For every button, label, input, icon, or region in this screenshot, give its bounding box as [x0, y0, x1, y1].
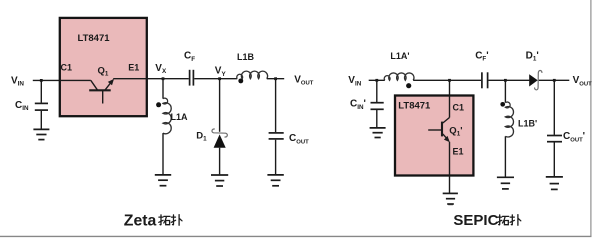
svg-text:VX: VX [155, 63, 167, 75]
wire COUT' to ground [553, 143, 555, 177]
svg-text:VIN: VIN [11, 75, 24, 87]
wire junction down to COUT' [553, 80, 555, 135]
wire VIN to L1A' [369, 79, 385, 81]
polarity dot L1A [156, 102, 161, 107]
node VY [218, 77, 221, 80]
svg-text:E1: E1 [453, 146, 464, 156]
svg-text:D1': D1' [526, 50, 539, 62]
capacitor COUT' [547, 136, 562, 142]
diode D1' Schottky [529, 71, 542, 90]
svg-text:COUT: COUT [289, 133, 309, 145]
svg-text:CF: CF [184, 51, 195, 63]
IC U2 LT8471 box right [395, 96, 473, 176]
wire D1 to ground [219, 148, 221, 175]
ground E1 [443, 193, 458, 204]
svg-text:CF': CF' [475, 50, 488, 62]
wire COUT to ground [275, 140, 277, 175]
wire E1 to VX to CF [113, 78, 189, 80]
wire CIN to ground [40, 111, 42, 130]
title SEPIC topology [453, 212, 520, 229]
transistor Q1' [428, 96, 450, 143]
polarity dot L1A' [406, 83, 411, 88]
svg-text:SEPIC: SEPIC [453, 212, 498, 229]
capacitor CF [190, 70, 194, 86]
node C1 junction [448, 79, 451, 82]
svg-text:Q1': Q1' [449, 125, 462, 137]
svg-text:VOUT: VOUT [573, 75, 593, 87]
wire L1B to VOUT [267, 78, 284, 80]
node VIN/CIN' junction [375, 79, 378, 82]
inductor L1B [237, 71, 268, 79]
ground L1A [155, 175, 171, 186]
wire D1' to VOUT [539, 79, 570, 81]
svg-text:LT8471: LT8471 [398, 100, 431, 111]
ground COUT [267, 175, 283, 186]
inductor L1B' [505, 102, 513, 137]
title Zeta topology [124, 213, 182, 230]
transistor Q1 [60, 79, 114, 104]
inductor L1A' [384, 73, 414, 80]
wire L1A' to CF' [413, 79, 481, 81]
wire junction down to CIN' [376, 80, 378, 102]
polarity dot L1B' [500, 102, 505, 107]
ground D1 [211, 175, 228, 186]
node VOUT/COUT' junction [553, 79, 556, 82]
polarity dot L1B [238, 78, 243, 83]
svg-text:VY: VY [215, 66, 227, 78]
svg-text:L1B: L1B [237, 52, 255, 62]
ground COUT' [546, 177, 563, 190]
wire CF to VY to L1B [194, 78, 237, 80]
diode D1 Schottky [212, 129, 227, 148]
svg-text:VIN: VIN [348, 75, 361, 87]
svg-text:Zeta: Zeta [124, 213, 157, 230]
svg-text:CIN': CIN' [350, 99, 366, 111]
wire VY down to D1 [219, 79, 221, 132]
wire junction down to L1B' [504, 80, 506, 102]
svg-text:C1: C1 [61, 63, 73, 73]
svg-text:COUT': COUT' [563, 131, 585, 143]
capacitor CIN' [371, 103, 384, 110]
svg-text:L1B': L1B' [518, 118, 537, 128]
capacitor CF' [482, 72, 488, 88]
svg-text:E1: E1 [128, 63, 139, 73]
svg-text:LT8471: LT8471 [78, 33, 111, 44]
node VIN/CIN junction [40, 79, 43, 82]
wire VX down to L1A [162, 79, 164, 99]
inductor L1A [163, 98, 171, 134]
ground L1B' [497, 177, 514, 189]
wire E1 to ground [449, 142, 451, 194]
svg-text:D1: D1 [196, 130, 207, 142]
wire CIN' to ground [376, 110, 378, 128]
stray dash mark [448, 204, 453, 206]
svg-text:C1: C1 [453, 102, 465, 112]
wire L1A to ground [162, 133, 164, 175]
ground CIN [33, 129, 49, 139]
capacitor COUT [269, 133, 284, 139]
capacitor CIN [35, 103, 48, 110]
node VOUT/COUT junction [274, 77, 277, 80]
wire junction down to C1 pin [449, 80, 451, 117]
svg-text:L1A: L1A [171, 112, 189, 122]
svg-text:VOUT: VOUT [294, 75, 314, 87]
IC U1 LT8471 box [60, 18, 147, 116]
wire junction down to CIN [40, 80, 42, 102]
svg-text:CIN: CIN [15, 100, 29, 112]
wire CF' to D1' [489, 79, 530, 81]
wire L1B' to ground [504, 136, 506, 177]
wire VIN to C1 pin [33, 79, 60, 81]
node CF'/L1B' junction [504, 79, 507, 82]
node VX [162, 77, 165, 80]
svg-text:L1A': L1A' [390, 51, 409, 61]
wire junction down to COUT [275, 79, 277, 133]
ground CIN' [370, 128, 386, 138]
